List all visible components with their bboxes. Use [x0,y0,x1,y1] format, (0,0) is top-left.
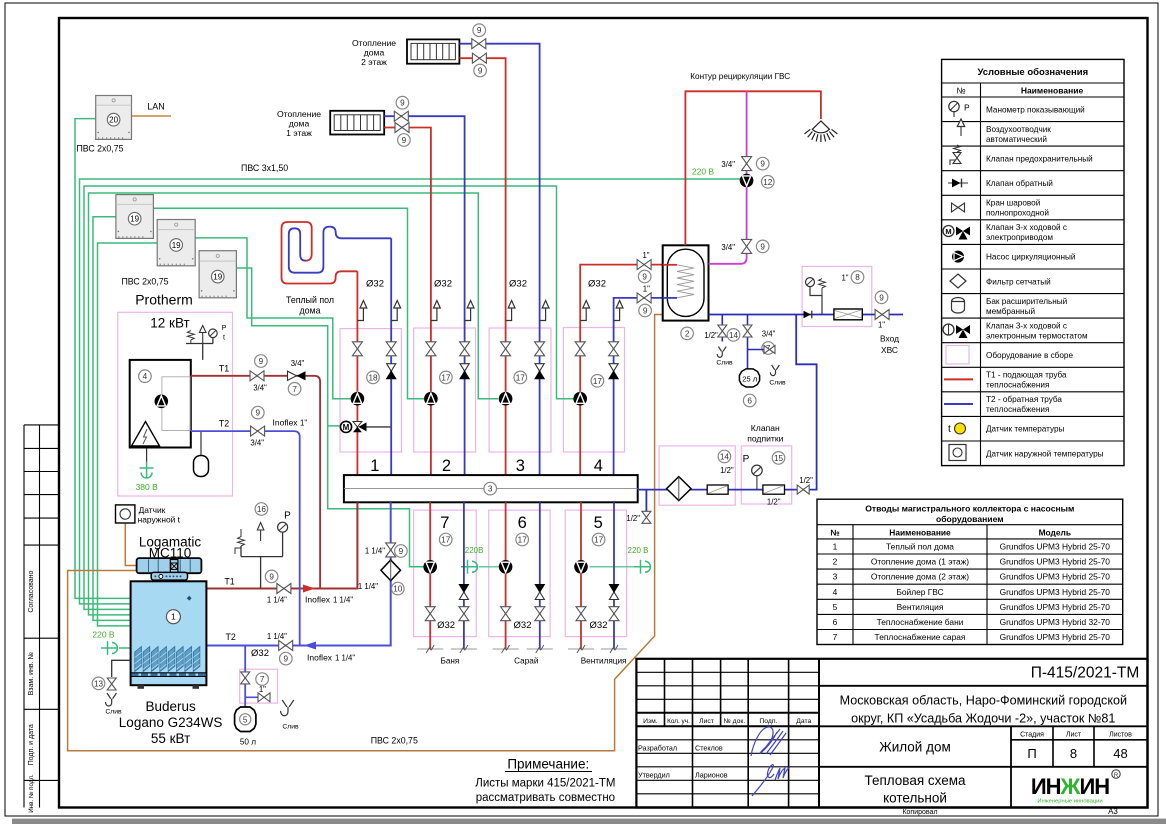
tag 16 [255,503,268,516]
svg-text:12 кВт: 12 кВт [150,316,189,331]
svg-text:Ø32: Ø32 [251,648,269,659]
svg-text:1": 1" [300,419,307,428]
legend symbol equipment assembly box [946,346,969,365]
svg-text:Вентиляция: Вентиляция [897,602,944,612]
svg-text:Модель: Модель [1039,528,1071,538]
svg-text:8: 8 [855,273,860,282]
svg-text:Клапан предохранительный: Клапан предохранительный [986,154,1093,163]
equipment box pump group 7 [414,510,477,636]
pipe group 6 blue [539,502,541,649]
legend symbol outdoor temperature sensor [949,445,966,461]
tag 9 [638,270,651,283]
wire controller20 to boiler [75,119,131,599]
svg-text:Лист: Лист [1066,732,1082,739]
makeup strainer diamond [667,477,691,501]
svg-text:Grundfos UPM3 Hybrid 25-70: Grundfos UPM3 Hybrid 25-70 [1000,632,1111,642]
svg-text:Отопление дома (1 этаж): Отопление дома (1 этаж) [871,557,969,567]
svg-text:3/4": 3/4" [721,160,735,169]
collector drain stub [645,490,647,512]
svg-text:5: 5 [594,514,603,532]
svg-text:1 1/4": 1 1/4" [267,596,287,605]
pipe group 7 blue [463,502,465,649]
radiator 2nd floor [407,39,459,63]
svg-text:ПВС 2х0,75: ПВС 2х0,75 [371,736,418,746]
svg-text:Разработал: Разработал [638,743,677,752]
svg-text:электроприводом: электроприводом [986,233,1053,242]
svg-text:ХВС: ХВС [881,345,898,355]
svg-text:1 1/4": 1 1/4" [267,632,287,641]
svg-text:1/2": 1/2" [720,466,734,475]
pump 5 [574,560,588,574]
svg-text:3/4": 3/4" [762,330,776,339]
svg-text:Ø32: Ø32 [590,620,608,631]
tag 17 group5 [592,533,605,546]
valve radiator 1fl blue [394,111,408,121]
svg-text:ПВС 2х0,75: ПВС 2х0,75 [121,277,168,287]
pump 4 [573,392,587,406]
tag 7 and 1 inch [256,673,269,686]
makeup valve unit 15 gauge [752,465,763,476]
strainer filter 10 on return [381,560,401,581]
svg-text:P: P [743,454,750,465]
check valves below collector [459,585,468,593]
gauge P 16 [278,522,288,532]
power plug Protherm 380V [140,462,154,479]
svg-text:дома: дома [364,48,385,58]
expansion vessel 6 (25l) [739,369,759,387]
svg-text:2: 2 [685,329,690,338]
legend symbol air vent [957,119,964,136]
svg-text:Воздухоотводчик: Воздухоотводчик [986,125,1051,134]
legend symbol manometer [949,101,970,117]
tag 17 group4 [591,375,604,388]
svg-text:2: 2 [833,557,838,567]
equipment box boiler drain 7 [240,669,278,703]
svg-text:Слив: Слив [282,724,299,731]
svg-text:t: t [948,424,951,435]
svg-text:17: 17 [441,535,451,544]
wire controller19-2 to pump 1 [194,238,351,399]
svg-text:3: 3 [488,485,493,494]
svg-text:17: 17 [594,535,604,544]
svg-text:М: М [343,423,350,432]
svg-text:5: 5 [243,715,248,724]
svg-text:ПВС 3х1,50: ПВС 3х1,50 [241,163,288,173]
Protherm boiler body 4 [130,360,191,448]
svg-text:Ларионов: Ларионов [695,770,728,779]
signature scribble 1 [751,727,786,756]
svg-text:1/2": 1/2" [799,476,813,485]
svg-text:автоматический: автоматический [986,135,1047,144]
svg-text:подпитки: подпитки [747,434,783,444]
valve Buderus T2 [279,641,293,651]
svg-text:Стеклов: Стеклов [695,743,723,752]
legend symbol circulation pump [952,251,964,263]
makeup valve 1/2 [797,485,809,494]
svg-text:1": 1" [642,251,649,260]
svg-text:LAN: LAN [147,102,165,112]
bypass line to mixing valve [367,426,392,428]
svg-text:12: 12 [763,178,773,187]
equipment box pump group 5 [565,510,626,636]
svg-text:380 В: 380 В [136,482,159,492]
svg-text:19: 19 [213,273,222,282]
legend symbol temperature sensor [948,423,966,435]
tag 18 group1 [367,371,380,384]
Protherm expansion vessel [200,431,202,455]
makeup component 2 [763,485,785,494]
pipe blue into coil [663,297,677,299]
floor heating loop return blue [289,227,391,273]
svg-text:25 л: 25 л [742,374,757,383]
svg-text:Дата: Дата [796,718,811,725]
tank drain branch 14 [721,315,723,342]
legend symbol safety valve [950,145,961,165]
svg-text:№: № [830,528,840,538]
pipe T1 radiator 2fl to column 3 red [459,58,505,475]
controller unit 19 #2 [157,220,195,266]
svg-text:Насос циркуляционный: Насос циркуляционный [986,253,1076,262]
svg-text:9: 9 [642,272,647,281]
svg-text:3/4": 3/4" [291,359,305,368]
tag 17 group2 [440,371,453,384]
safety valve Protherm [187,331,194,344]
legend table Условные обозначения [942,59,1124,465]
svg-text:15: 15 [774,454,784,463]
tag 14 and size [718,450,731,463]
valve radiator 1fl red [395,123,409,133]
valve Buderus T1 [277,584,291,594]
svg-text:1": 1" [841,274,848,283]
legend symbol expansion tank [952,298,965,314]
outdoor sensor box [116,505,135,523]
DHW recirculation magenta return [709,91,747,263]
makeup component 1 [707,485,728,494]
svg-text:14: 14 [729,331,739,340]
svg-text:Подп. и дата: Подп. и дата [28,724,35,765]
svg-text:9: 9 [760,160,765,169]
svg-text:6: 6 [833,617,838,627]
svg-text:оборудованием: оборудованием [936,514,1004,524]
tag 9 below [398,134,411,147]
svg-text:Слив: Слив [716,360,733,367]
svg-text:1 1/4": 1 1/4" [333,596,353,605]
svg-text:№: № [956,86,965,96]
svg-text:Теплый пол: Теплый пол [286,295,334,305]
svg-text:наружной t: наружной t [138,515,181,525]
legend symbol check valve [948,179,968,188]
svg-text:48: 48 [1113,746,1127,761]
tag 9 above [396,96,409,109]
svg-text:7: 7 [260,675,265,684]
svg-text:Ø32: Ø32 [588,279,606,290]
svg-text:17: 17 [593,377,603,386]
svg-text:17: 17 [518,535,528,544]
svg-text:Стадия: Стадия [1020,732,1044,739]
svg-text:7: 7 [833,632,838,642]
pipe column 1 red [356,271,358,475]
pipe Protherm T1 [191,376,320,589]
equipment box pump group 4 [563,328,624,453]
valve radiator 2fl blue [472,39,486,49]
valve radiator 2fl red [472,53,486,63]
group valves at top [352,342,362,356]
bottom gray bar [12,819,1166,824]
legend symbol 3-way valve w/ thermostat [943,324,970,338]
pipe group 6 red [505,502,507,649]
Protherm top safety assembly [186,338,213,360]
svg-text:1 этаж: 1 этаж [286,128,312,138]
svg-text:1: 1 [370,457,379,475]
svg-text:Контур рециркуляции ГВС: Контур рециркуляции ГВС [690,72,790,81]
svg-text:Т1: Т1 [219,364,229,374]
svg-text:50 л: 50 л [240,738,256,747]
svg-text:Grundfos UPM3 Hybrid 25-70: Grundfos UPM3 Hybrid 25-70 [1000,587,1111,597]
svg-text:Манометр показывающий: Манометр показывающий [986,105,1085,114]
svg-text:3: 3 [833,572,838,582]
svg-text:9: 9 [643,306,648,315]
power plug pump 6 [461,560,478,574]
svg-text:7: 7 [440,514,449,532]
pipe column 1 blue [390,238,392,475]
svg-text:Т2: Т2 [219,419,229,429]
valve drain branch [241,672,250,684]
svg-text:1 1/4": 1 1/4" [335,654,355,663]
pipe Protherm T2 [191,431,300,645]
svg-text:Клапан: Клапан [751,423,780,433]
svg-text:4: 4 [143,372,148,381]
svg-text:17: 17 [441,373,451,382]
svg-text:9: 9 [259,357,264,366]
svg-text:Inoflex: Inoflex [273,418,299,428]
pipe Buderus T1 to collector [206,502,357,588]
LAN wire [132,115,172,117]
svg-text:Фильтр сетчатый: Фильтр сетчатый [986,277,1051,286]
svg-text:Отопление: Отопление [277,109,321,119]
svg-text:Теплоснабжение бани: Теплоснабжение бани [877,617,964,627]
svg-text:220 В: 220 В [692,167,715,177]
tag 17 group6 [516,533,529,546]
svg-text:электронным термостатом: электронным термостатом [986,331,1088,340]
pipe drain branch to vessel 5 [244,646,246,708]
svg-text:Слив: Слив [105,709,122,716]
svg-text:1: 1 [171,612,176,622]
svg-text:1 1/4": 1 1/4" [365,547,385,556]
floor heating loop supply red [282,222,358,284]
inlet gauge and safety valve unit 8 [806,278,815,287]
expansion branch with vessel 6 (25l) [747,315,749,369]
svg-text:Оборудование в сборе: Оборудование в сборе [986,351,1073,360]
svg-text:Grundfos UPM3 Hybrid 25-70: Grundfos UPM3 Hybrid 25-70 [1000,541,1111,551]
equipment box makeup valve 15 [741,446,791,504]
svg-text:Кол. уч.: Кол. уч. [667,718,690,725]
svg-text:17: 17 [516,373,526,382]
radiator 1st floor [330,111,384,135]
svg-text:19: 19 [130,215,139,224]
svg-text:Клапан 3-х ходовой с: Клапан 3-х ходовой с [986,321,1067,330]
controller unit 19 #3 [199,251,236,298]
svg-text:дома: дома [289,119,310,129]
svg-text:Баня: Баня [440,657,459,666]
svg-text:№ док.: № док. [724,718,746,725]
svg-text:1/2": 1/2" [767,498,781,507]
Protherm warning triangle [132,422,160,447]
svg-text:9: 9 [402,136,407,145]
check valves on returns [387,364,396,372]
pipe T2 radiator 1fl to column 2 blue [384,116,464,475]
svg-text:Бак расширительный: Бак расширительный [986,297,1067,306]
pump 2 [424,392,438,406]
svg-text:округ, КП «Усадьба Жодочи -2»,: округ, КП «Усадьба Жодочи -2», участок №… [851,712,1115,726]
svg-text:2 этаж: 2 этаж [361,57,387,67]
svg-text:220 В: 220 В [628,546,649,555]
svg-text:3: 3 [516,457,525,475]
air vents on risers [357,308,363,321]
Logamatic MC110 controller [137,558,202,580]
pump 7 [423,560,437,574]
boiler drain 13 [112,660,131,677]
equipment box Protherm [118,312,233,496]
legend symbol 3-way valve w/ motor [943,226,970,240]
svg-text:Инв. № подл.: Инв. № подл. [28,774,35,813]
pipe group 7 red [429,502,431,649]
Buderus boiler body 1 [131,581,207,689]
svg-text:Ø32: Ø32 [514,620,532,631]
svg-text:Т2: Т2 [225,632,235,642]
svg-text:Inoflex: Inoflex [307,653,333,663]
svg-text:Logano G234WS: Logano G234WS [119,715,223,730]
svg-text:16: 16 [257,505,267,514]
pump outlets table rows [833,541,1111,642]
makeup pipe from collector [638,315,817,490]
svg-text:1 1/4": 1 1/4" [358,582,378,591]
svg-text:9: 9 [477,26,482,35]
svg-text:теплоснабжения: теплоснабжения [986,381,1049,390]
svg-text:9: 9 [284,655,289,664]
check valve Protherm T1 [288,371,297,380]
svg-text:Ø32: Ø32 [509,279,527,290]
magnetic filter component [834,309,862,320]
legend symbol ball valve [952,203,965,212]
svg-text:мембранный: мембранный [986,307,1035,316]
svg-text:55 кВт: 55 кВт [151,731,190,746]
wire 220V line to pump 12 [80,179,740,604]
shower head symbol [804,121,837,142]
svg-text:3/4": 3/4" [721,243,735,252]
tag 17 group7 [439,533,452,546]
drain funnel [281,700,294,716]
svg-text:Grundfos UPM3 Hybrid 25-70: Grundfos UPM3 Hybrid 25-70 [1000,572,1111,582]
svg-text:Условные обозначения: Условные обозначения [977,67,1088,78]
expansion vessel 5 (50l) [235,707,256,732]
tag 9 [639,304,652,317]
title block grid [636,659,1147,808]
svg-text:3/4": 3/4" [253,384,267,393]
legend symbol T2 return pipe [944,403,973,405]
svg-text:Листов: Листов [1109,732,1132,739]
svg-text:Вход: Вход [880,334,899,344]
boiler sensor wire loop ПВС 2x0,75 [68,315,663,751]
left margin stamp strip [24,425,59,808]
svg-text:19: 19 [172,241,181,250]
pipe red into coil [663,264,677,266]
svg-text:2: 2 [442,457,451,475]
svg-text:ПВС 2х0,75: ПВС 2х0,75 [76,144,123,154]
svg-text:Листы марки 415/2021-ТМ: Листы марки 415/2021-ТМ [475,778,615,790]
svg-text:Теплоснабжение сарая: Теплоснабжение сарая [875,632,966,642]
tag 17 group3 [514,371,527,384]
pump 1 [351,392,365,406]
svg-text:10: 10 [393,585,403,594]
svg-text:Датчик: Датчик [139,505,166,515]
svg-text:Ø32: Ø32 [437,620,455,631]
main collector 3 [344,475,638,502]
svg-text:Grundfos UPM3 Hybrid 25-70: Grundfos UPM3 Hybrid 25-70 [1000,602,1111,612]
svg-text:Наименование: Наименование [889,528,951,538]
svg-text:4: 4 [594,457,603,475]
power plug boiler 220V [101,641,118,655]
svg-text:9: 9 [879,293,884,302]
svg-text:4: 4 [833,587,838,597]
air vent Protherm [199,326,206,333]
svg-text:Жилой дом: Жилой дом [879,740,951,755]
wire controller19-1 left to boiler [93,217,131,621]
svg-text:Копировал: Копировал [902,809,937,816]
wire controller19-3 to mixing valve and pump 7 [236,268,423,567]
equipment box pump group 1 [340,329,401,452]
pipe break marks [417,648,443,650]
svg-text:Отопление дома (2 этаж): Отопление дома (2 этаж) [871,572,969,582]
air vent 16 [257,523,264,531]
svg-text:Ø32: Ø32 [366,279,384,290]
svg-text:рассматривать совместно: рассматривать совместно [476,792,615,804]
pipe tank return blue column 4 [614,298,663,475]
svg-text:9: 9 [760,242,765,251]
svg-text:Т1 - подающая труба: Т1 - подающая труба [986,371,1067,380]
controller unit 19 #1 [116,195,153,239]
svg-text:9: 9 [256,409,261,418]
outdoor sensor wire to Logamatic [125,523,136,566]
svg-text:Датчик наружной температуры: Датчик наружной температуры [986,449,1104,458]
lower valves [425,607,435,621]
legend row texts [986,105,1104,458]
svg-text:1/2": 1/2" [704,331,718,340]
svg-text:7: 7 [292,385,297,394]
svg-text:ИНЖИН: ИНЖИН [1031,774,1109,799]
svg-text:Grundfos UPM3 Hybrid 25-70: Grundfos UPM3 Hybrid 25-70 [1000,557,1111,567]
svg-text:9: 9 [399,547,404,556]
valve Protherm T1 [250,371,264,381]
gauge P t [209,329,218,338]
DHW recirculation red pipe [685,91,821,245]
wire controller19-2 left to boiler [98,243,158,626]
svg-text:Примечание:: Примечание: [507,757,589,772]
svg-text:Взам. инв. №: Взам. инв. № [28,652,35,695]
svg-text:теплоснабжения: теплоснабжения [986,405,1049,414]
safety group 16 manifold [241,533,283,589]
svg-text:3/4": 3/4" [250,439,264,448]
flow arrow T1 [303,585,315,593]
equipment box pump group 6 [489,510,550,636]
signature scribble 2 [752,765,790,796]
svg-text:Наименование: Наименование [1021,86,1084,96]
svg-text:9: 9 [400,99,405,108]
svg-text:П-415/2021-ТМ: П-415/2021-ТМ [1031,665,1140,682]
svg-text:220В: 220В [465,546,484,555]
svg-text:Датчик температуры: Датчик температуры [986,425,1065,434]
valve 3/4 upper recirc [742,157,752,171]
svg-text:Изм.: Изм. [643,718,658,725]
